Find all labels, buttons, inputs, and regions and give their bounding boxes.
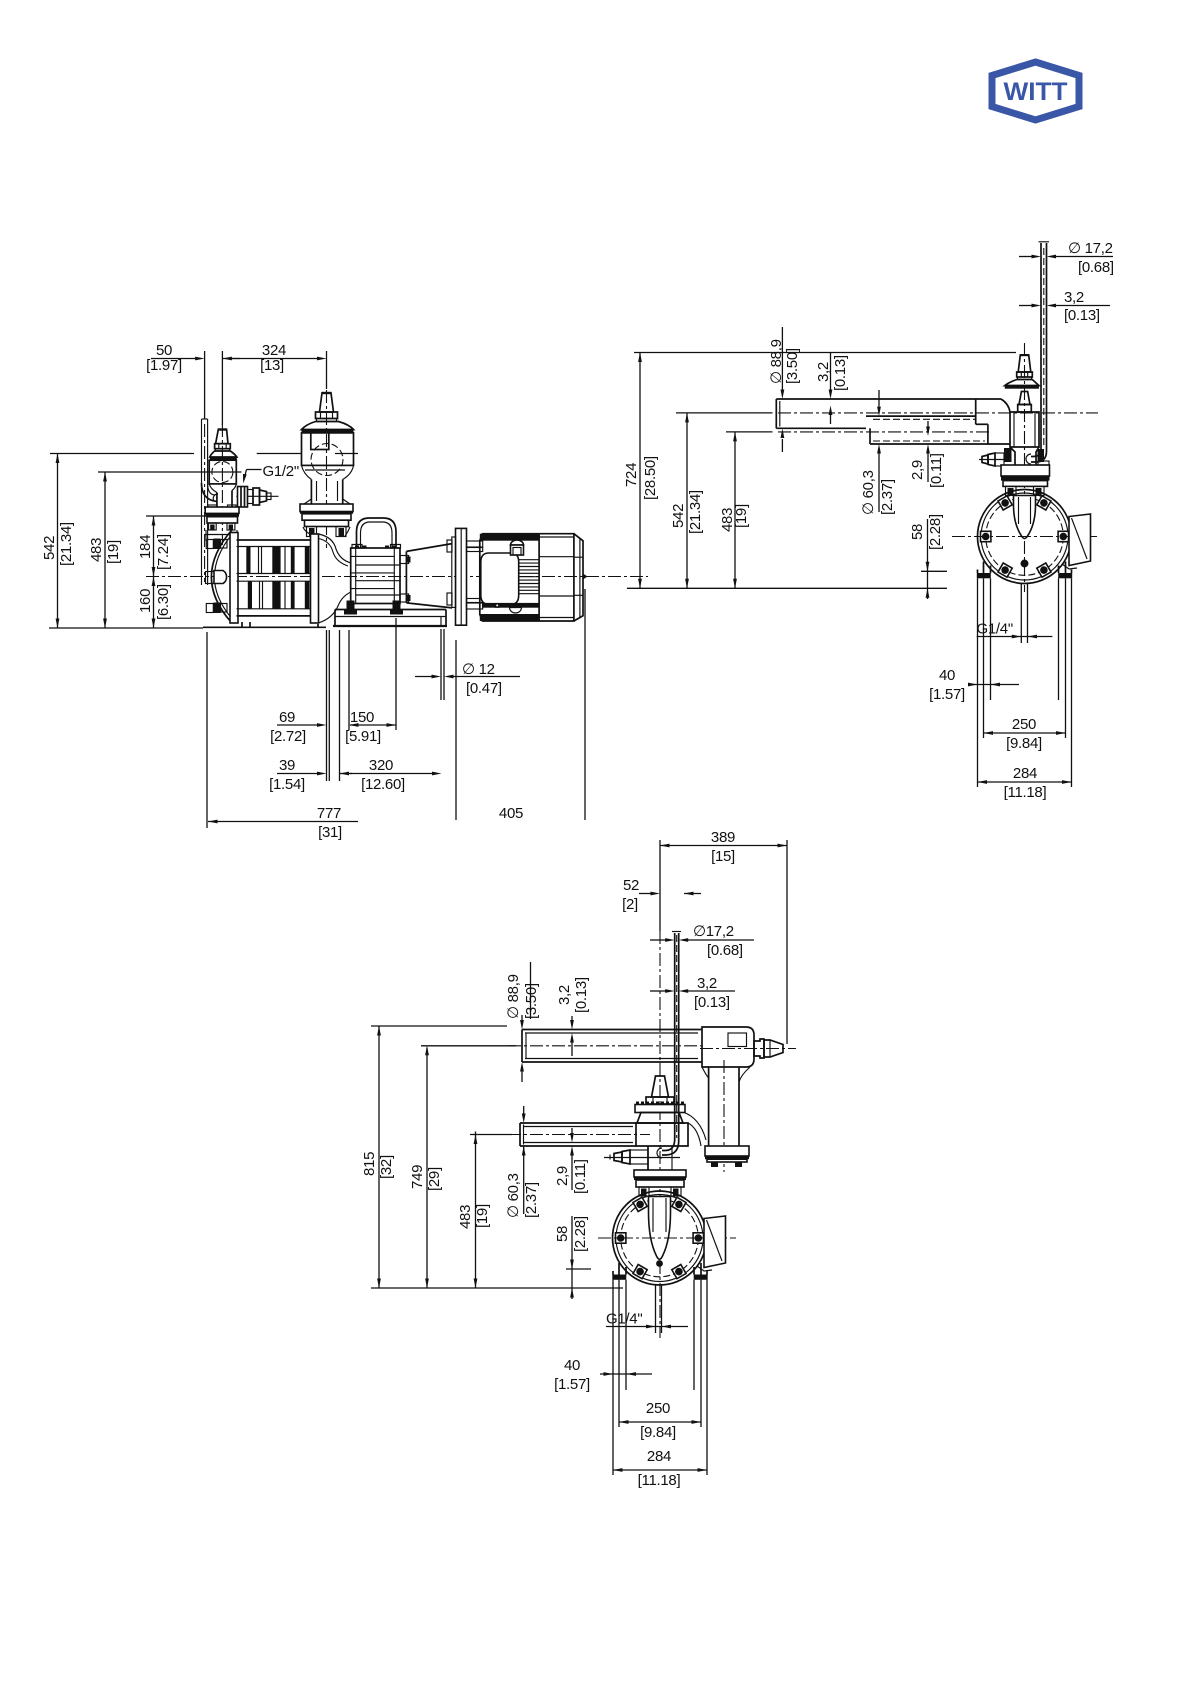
- svg-text:160: 160: [137, 589, 154, 613]
- svg-text:58: 58: [554, 1226, 571, 1242]
- svg-text:[11.18]: [11.18]: [638, 1472, 681, 1489]
- svg-text:777: 777: [317, 805, 341, 822]
- svg-text:∅17,2: ∅17,2: [693, 923, 734, 940]
- svg-text:[0.13]: [0.13]: [832, 355, 849, 391]
- svg-text:[28.50]: [28.50]: [642, 456, 659, 500]
- svg-text:[0.11]: [0.11]: [572, 1159, 589, 1194]
- svg-text:[7.24]: [7.24]: [155, 534, 172, 570]
- svg-text:[2.28]: [2.28]: [572, 1216, 589, 1252]
- svg-text:284: 284: [1013, 765, 1037, 782]
- svg-text:39: 39: [279, 757, 295, 774]
- svg-text:[5.91]: [5.91]: [345, 728, 381, 745]
- svg-text:[0.13]: [0.13]: [694, 994, 730, 1011]
- svg-text:[31]: [31]: [318, 824, 342, 841]
- svg-text:483: 483: [457, 1205, 474, 1229]
- svg-text:[9.84]: [9.84]: [1006, 735, 1042, 752]
- svg-text:[2.37]: [2.37]: [879, 479, 896, 515]
- svg-text:[0.47]: [0.47]: [466, 680, 502, 697]
- svg-text:G1/4": G1/4": [977, 621, 1013, 638]
- svg-text:∅ 17,2: ∅ 17,2: [1068, 240, 1113, 257]
- svg-text:[11.18]: [11.18]: [1004, 784, 1047, 801]
- svg-text:[2.72]: [2.72]: [270, 728, 306, 745]
- svg-text:[2.28]: [2.28]: [927, 514, 944, 550]
- svg-text:389: 389: [711, 829, 735, 846]
- svg-text:WITT: WITT: [1004, 78, 1068, 106]
- svg-text:[1.57]: [1.57]: [929, 686, 965, 703]
- svg-text:[21.34]: [21.34]: [58, 522, 75, 566]
- svg-text:[9.84]: [9.84]: [640, 1424, 676, 1441]
- svg-text:[3.50]: [3.50]: [784, 348, 801, 384]
- svg-text:3,2: 3,2: [556, 985, 573, 1005]
- svg-text:320: 320: [369, 757, 393, 774]
- svg-text:[32]: [32]: [378, 1155, 395, 1179]
- svg-text:184: 184: [137, 535, 154, 559]
- svg-text:542: 542: [670, 504, 687, 528]
- svg-text:3,2: 3,2: [697, 975, 717, 992]
- svg-text:[0.68]: [0.68]: [707, 942, 743, 959]
- svg-text:542: 542: [41, 536, 58, 560]
- svg-text:250: 250: [646, 1400, 670, 1417]
- svg-text:[1.54]: [1.54]: [269, 776, 305, 793]
- svg-text:[21.34]: [21.34]: [687, 490, 704, 534]
- svg-text:40: 40: [564, 1357, 580, 1374]
- svg-text:[0.68]: [0.68]: [1078, 259, 1114, 276]
- svg-text:[13]: [13]: [260, 357, 284, 374]
- svg-text:40: 40: [939, 667, 955, 684]
- svg-text:3,2: 3,2: [815, 362, 832, 382]
- svg-text:[6.30]: [6.30]: [155, 584, 172, 620]
- svg-text:150: 150: [350, 709, 374, 726]
- svg-text:[29]: [29]: [426, 1167, 443, 1191]
- svg-text:[19]: [19]: [474, 1204, 491, 1228]
- svg-text:[0.13]: [0.13]: [573, 977, 590, 1013]
- svg-text:69: 69: [279, 709, 295, 726]
- svg-text:284: 284: [647, 1448, 671, 1465]
- svg-text:2,9: 2,9: [554, 1166, 571, 1186]
- svg-text:G1/2": G1/2": [263, 463, 299, 480]
- svg-text:3,2: 3,2: [1064, 289, 1084, 306]
- svg-text:[19]: [19]: [105, 540, 122, 564]
- svg-text:58: 58: [909, 524, 926, 540]
- svg-text:[1.57]: [1.57]: [554, 1376, 590, 1393]
- svg-text:[12.60]: [12.60]: [361, 776, 405, 793]
- svg-text:483: 483: [88, 538, 105, 562]
- svg-text:724: 724: [623, 463, 640, 487]
- svg-text:[3.50]: [3.50]: [523, 983, 540, 1019]
- svg-text:∅ 60,3: ∅ 60,3: [860, 470, 877, 515]
- svg-text:749: 749: [409, 1165, 426, 1189]
- svg-text:[1.97]: [1.97]: [146, 357, 182, 374]
- svg-text:815: 815: [361, 1152, 378, 1176]
- svg-text:405: 405: [499, 805, 523, 822]
- svg-text:250: 250: [1012, 716, 1036, 733]
- svg-text:∅ 12: ∅ 12: [462, 661, 495, 678]
- svg-text:[15]: [15]: [711, 848, 735, 865]
- svg-text:∅ 88,9: ∅ 88,9: [505, 974, 522, 1019]
- svg-text:∅ 60,3: ∅ 60,3: [505, 1173, 522, 1218]
- svg-text:G1/4": G1/4": [606, 1311, 642, 1328]
- svg-text:52: 52: [623, 877, 639, 894]
- svg-text:[2]: [2]: [622, 896, 638, 913]
- svg-text:[0.11]: [0.11]: [928, 453, 945, 488]
- svg-text:[0.13]: [0.13]: [1064, 307, 1100, 324]
- svg-text:2,9: 2,9: [909, 460, 926, 480]
- svg-text:[2.37]: [2.37]: [523, 1182, 540, 1218]
